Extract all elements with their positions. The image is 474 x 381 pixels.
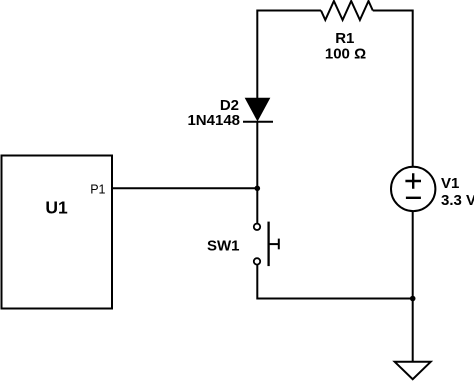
- switch SW1 button tick: [278, 239, 280, 250]
- switch SW1 actuator bar: [267, 222, 269, 267]
- resistor R1: [321, 1, 373, 20]
- wire: top-left segment from diode branch up and right to R1: [257, 11, 321, 100]
- diode D2 cathode bar: [243, 121, 273, 123]
- svg-text:V1: V1: [441, 175, 459, 192]
- svg-text:SW1: SW1: [207, 238, 240, 255]
- V1 minus sign: [406, 197, 421, 199]
- wire: V1 bottom down through ground node to ground symbol: [412, 211, 414, 362]
- switch SW1 actuator stem: [269, 243, 279, 245]
- svg-text:R1: R1: [335, 30, 354, 47]
- svg-text:100 Ω: 100 Ω: [325, 46, 366, 63]
- svg-text:3.3 V: 3.3 V: [441, 192, 474, 209]
- diode D2 triangle (anode): [246, 98, 270, 120]
- wire: U1 pin P1 to node A: [112, 187, 257, 189]
- ground: [395, 362, 431, 379]
- IC U1 box: [2, 156, 113, 309]
- node A junction dot: [254, 186, 260, 192]
- V1 plus sign: [405, 173, 421, 189]
- svg-text:P1: P1: [90, 183, 105, 197]
- wire: node A down to SW1 top terminal: [256, 188, 258, 223]
- switch SW1 bottom terminal circle: [254, 258, 260, 264]
- wire: R1 right to V1 top: [373, 11, 413, 168]
- svg-text:U1: U1: [45, 198, 68, 218]
- ground node junction dot: [410, 296, 416, 302]
- wire: D2 cathode down to node A: [256, 122, 258, 189]
- svg-text:1N4148: 1N4148: [187, 112, 240, 129]
- wire: SW1 bottom terminal down and right to ground node: [257, 265, 412, 299]
- voltage source V1 circle: [391, 167, 435, 211]
- switch SW1 top terminal circle: [254, 224, 260, 230]
